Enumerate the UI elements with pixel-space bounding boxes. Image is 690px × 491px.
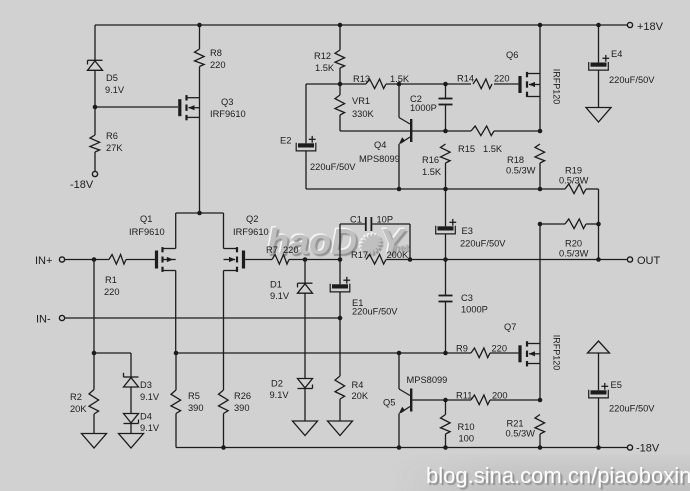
wire Q3 source to tail (199, 117, 201, 213)
wire bottom -18V rail (176, 447, 627, 449)
wire R10 wires (445, 400, 447, 448)
svg-text:R13: R13 (353, 74, 370, 84)
node out rail / D1 (303, 257, 308, 262)
svg-text:R16: R16 (422, 155, 439, 165)
node R19/R20 right (596, 222, 601, 227)
wire R1 to Q1 gate (126, 259, 155, 261)
svg-text:R18: R18 (507, 155, 524, 165)
ground below R4 (328, 421, 353, 436)
svg-text:R9: R9 (456, 344, 468, 354)
svg-text:100: 100 (459, 434, 475, 444)
svg-text:220: 220 (104, 287, 120, 297)
wire +18V top rail (95, 24, 628, 26)
wire IN- line (65, 317, 340, 319)
resistor VR1 (335, 95, 375, 119)
svg-text:D3: D3 (140, 380, 152, 390)
svg-text:9.1V: 9.1V (270, 291, 290, 301)
wire base rail (340, 130, 540, 132)
wire D5 to junction (94, 71, 96, 136)
resistor R15 (458, 126, 503, 154)
svg-text:-18V: -18V (636, 443, 660, 455)
wire IN+ to R1 (65, 259, 109, 261)
wire rail2 to VR1 (339, 84, 341, 95)
node bottom rail / R26 (221, 445, 226, 450)
svg-text:R8: R8 (210, 48, 222, 58)
resistor R2 (70, 390, 99, 415)
wire Q6 drain to top rail (539, 25, 541, 74)
svg-text:VR1: VR1 (352, 96, 370, 106)
wire R7 to D1 node (289, 259, 340, 261)
terminal OUT (627, 255, 660, 267)
svg-text:220: 220 (494, 74, 510, 84)
svg-text:OUT: OUT (637, 255, 661, 267)
svg-text:D4: D4 (140, 412, 152, 422)
wire R8 to Q3 drain (199, 67, 201, 98)
wire arrow to E5 (598, 353, 600, 390)
svg-text:R19: R19 (565, 166, 582, 176)
capacitor C2 (410, 94, 453, 113)
wire Q7 source down (539, 364, 541, 401)
svg-text:R12: R12 (314, 51, 331, 61)
capacitor C1 (340, 215, 410, 260)
capacitor E5 (589, 380, 656, 414)
resistor R10 (441, 415, 475, 444)
terminal IN+ (35, 255, 65, 267)
wire IN- node to R4 (339, 318, 341, 376)
capacitor E1 (330, 277, 398, 317)
node R20 left (538, 222, 543, 227)
svg-text:Q3: Q3 (221, 97, 233, 107)
svg-text:27K: 27K (106, 143, 123, 153)
svg-text:MPS8099: MPS8099 (407, 375, 448, 385)
wire E2 to rail4 (305, 151, 307, 189)
svg-text:20K: 20K (352, 391, 369, 401)
svg-text:200K: 200K (387, 250, 410, 260)
resistor R19 (540, 166, 599, 194)
wire out rail to D1 (304, 260, 306, 284)
node rail4 / Q4 emitter (397, 187, 402, 192)
wire C2 to base rail (445, 105, 447, 131)
svg-text:E3: E3 (462, 226, 473, 236)
transistor Q7 (504, 322, 562, 370)
node tail / Q3 source (197, 211, 202, 216)
svg-text:R7: R7 (266, 245, 278, 255)
node rail2 / C2 (443, 82, 448, 87)
svg-text:R5: R5 (188, 391, 200, 401)
svg-text:Q5: Q5 (383, 398, 395, 408)
wire E1 top (339, 260, 341, 285)
wire Q6 source down (539, 97, 541, 132)
resistor R1 (104, 255, 126, 298)
capacitor E4 (589, 49, 656, 85)
svg-text:220uF/50V: 220uF/50V (609, 404, 655, 414)
node rail4 / R18 / R19 (538, 187, 543, 192)
svg-text:9.1V: 9.1V (270, 390, 290, 400)
wire Q2 drain down (223, 271, 225, 391)
svg-text:IN-: IN- (36, 314, 51, 326)
node gate rail / Q1 drain (174, 351, 179, 356)
capacitor C3 (439, 293, 488, 315)
svg-text:E4: E4 (611, 49, 622, 59)
resistor R7 (266, 245, 299, 264)
node rail2 / Q4 collector (397, 82, 402, 87)
node rail2 / R12 / VR1 (338, 82, 343, 87)
terminal -18V left (70, 171, 98, 191)
wire top rail to R8 (199, 25, 201, 49)
svg-text:R10: R10 (458, 422, 475, 432)
ground below R2 (82, 434, 107, 449)
wire Q1 drain down (175, 271, 177, 354)
svg-text:E2: E2 (280, 136, 291, 146)
node IN+ / R2 branch (92, 257, 97, 262)
wire R20 node to out rail (598, 224, 600, 260)
wire Q2 gate to R7 (245, 259, 272, 261)
ground below E4 (586, 108, 611, 123)
svg-text:330K: 330K (352, 109, 375, 119)
wire tail (176, 213, 224, 249)
node bottom rail / R21 (538, 445, 543, 450)
wire Q3 gate (95, 106, 178, 108)
node rail4 / E3 (443, 187, 448, 192)
transistor Q1 (129, 214, 176, 272)
wire second rail (306, 83, 518, 85)
wire top rail to R12 (339, 25, 341, 50)
transistor Q5 (383, 353, 447, 448)
svg-text:220: 220 (492, 344, 508, 354)
svg-text:IRFP120: IRFP120 (552, 335, 562, 371)
diode D5 (88, 60, 125, 95)
svg-text:1000P: 1000P (410, 103, 437, 113)
wire D3 to D4 (130, 387, 132, 413)
wire R18 to rail4 (539, 163, 541, 189)
svg-text:R20: R20 (565, 239, 582, 249)
node bottom rail / R10 (443, 445, 448, 450)
wire Q5 base (412, 399, 471, 401)
svg-text:R2: R2 (70, 392, 82, 402)
svg-text:R11: R11 (456, 391, 472, 401)
terminal -18V bottom (627, 443, 659, 455)
transistor Q6 (506, 50, 562, 104)
wire top rail to E4 (598, 25, 600, 63)
wire R2 wires (93, 353, 95, 434)
svg-text:E5: E5 (611, 380, 622, 390)
node out rail / E1 / C1 (338, 257, 343, 262)
node base rail / C2 / R16 (443, 129, 448, 134)
diode D2 (270, 379, 313, 401)
svg-text:R4: R4 (352, 380, 364, 390)
capacitor E3 (436, 219, 507, 249)
wire output devices column (539, 224, 541, 344)
svg-text:R17: R17 (351, 250, 368, 260)
wire R11 right (490, 399, 540, 401)
capacitor E2 (280, 136, 356, 173)
svg-text:IRFP120: IRFP120 (552, 69, 562, 105)
wire D1 to D2 (304, 294, 306, 379)
svg-text:220: 220 (210, 60, 226, 70)
resistor R4 (335, 376, 369, 401)
wire R26 to bottom rail (223, 414, 225, 448)
diode D3 (124, 373, 160, 402)
svg-text:Q1: Q1 (140, 214, 152, 224)
wire D4 to ground (130, 424, 132, 434)
node Q5 base / R10 (443, 398, 448, 403)
wire E4 to ground (598, 70, 600, 107)
wire D3 top (130, 353, 132, 377)
wire R21 to bottom rail (539, 434, 541, 448)
wire rail2 to C2 (445, 84, 447, 98)
resistor R12 (314, 50, 345, 73)
wire C3 to gate rail (445, 302, 447, 353)
wire R12 to rail2 (339, 68, 341, 84)
node bottom rail / Q5 emitter (397, 445, 402, 450)
transistor Q3 (178, 95, 245, 120)
svg-text:D2: D2 (271, 379, 283, 389)
wire R19 right down (598, 189, 600, 224)
svg-text:9.1V: 9.1V (140, 423, 160, 433)
node gate rail / Q5 collector (397, 351, 402, 356)
resistor R5 (171, 390, 204, 414)
node top rail / R12 (338, 23, 343, 28)
node IN- / E1 / R4 (338, 316, 343, 321)
wire gate rail (176, 352, 518, 354)
svg-text:Q4: Q4 (374, 140, 386, 150)
wire out rail to C3 (445, 260, 447, 296)
wire R16 to rail4 (445, 163, 447, 189)
wire rail4 (306, 188, 540, 190)
wire D5 top (94, 25, 96, 60)
node R2 top (92, 351, 97, 356)
node gate rail / C3 / R9 (443, 351, 448, 356)
wire E1 to IN- node (339, 292, 341, 318)
svg-text:0.5/3W: 0.5/3W (559, 176, 589, 186)
svg-text:R15: R15 (458, 144, 475, 154)
wire IN+ node down (93, 260, 95, 354)
wire VR1 to base rail (339, 115, 341, 131)
wire R2 branch (94, 352, 131, 354)
svg-text:R21: R21 (507, 419, 524, 429)
ground below D4 (119, 434, 144, 449)
wire D2 to ground (304, 389, 306, 421)
resistor R13 (353, 74, 410, 89)
resistor R11 (456, 391, 508, 405)
node top rail / Q6 drain (538, 23, 543, 28)
svg-text:0.5/3W: 0.5/3W (506, 166, 536, 176)
resistor R9 (456, 344, 507, 358)
ground below D2 (293, 421, 318, 436)
svg-text:C3: C3 (461, 293, 473, 303)
node out rail / C1 right (408, 257, 413, 262)
resistor R14 (457, 74, 510, 89)
svg-text:D1: D1 (270, 280, 282, 290)
svg-text:220: 220 (283, 245, 299, 255)
resistor R26 (219, 390, 252, 414)
resistor R16 (422, 144, 450, 177)
svg-text:0.5/3W: 0.5/3W (506, 429, 536, 439)
svg-text:Q7: Q7 (504, 322, 516, 332)
node out rail / R19R20 (596, 257, 601, 262)
svg-text:1.5K: 1.5K (422, 167, 442, 177)
svg-text:390: 390 (234, 403, 250, 413)
node Q7 source / R11 / R21 (538, 398, 543, 403)
svg-text:IRF9610: IRF9610 (233, 227, 269, 237)
svg-text:MPS8099: MPS8099 (359, 154, 400, 164)
resistor R18 (506, 144, 545, 176)
svg-text:390: 390 (188, 403, 204, 413)
svg-text:220uF/50V: 220uF/50V (609, 75, 655, 85)
svg-text:1.5K: 1.5K (315, 63, 335, 73)
svg-text:1000P: 1000P (461, 305, 488, 315)
svg-text:+18V: +18V (637, 21, 664, 33)
node top rail / E4 (596, 23, 601, 28)
svg-text:20K: 20K (70, 404, 87, 414)
node out rail / E3-C3 (443, 257, 448, 262)
arrow symbol above E5 (588, 341, 610, 353)
resistor R6 (90, 131, 123, 153)
node bottom rail / E5 (596, 445, 601, 450)
svg-text:10P: 10P (377, 215, 394, 225)
svg-text:1.5K: 1.5K (483, 144, 503, 154)
resistor R20 (540, 219, 599, 259)
svg-text:9.1V: 9.1V (105, 85, 125, 95)
wire rail2 to E2 (305, 84, 307, 143)
svg-text:220uF/50V: 220uF/50V (460, 239, 506, 249)
wire R6 to -18V (94, 152, 96, 172)
terminal +18V (627, 21, 663, 33)
resistor R17 (351, 250, 409, 264)
svg-text:IN+: IN+ (35, 255, 52, 267)
node base rail / R18 (538, 129, 543, 134)
wire R4 to ground (339, 399, 341, 421)
svg-text:220uF/50V: 220uF/50V (310, 162, 356, 172)
wire E3 to out rail (445, 234, 447, 260)
svg-text:9.1V: 9.1V (140, 392, 160, 402)
wire rail4 to E3 (445, 189, 447, 226)
svg-text:Q6: Q6 (506, 50, 518, 60)
svg-text:220uF/50V: 220uF/50V (352, 307, 398, 317)
svg-text:0.5/3W: 0.5/3W (559, 249, 589, 259)
wire E5 to bottom rail (598, 398, 600, 448)
resistor R21 (506, 415, 545, 439)
svg-text:-18V: -18V (70, 179, 94, 191)
svg-text:R1: R1 (105, 275, 117, 285)
transistor Q2 (224, 214, 269, 272)
svg-text:D5: D5 (106, 73, 118, 83)
terminal IN- (36, 314, 65, 326)
svg-text:R26: R26 (234, 391, 251, 401)
svg-text:C1: C1 (350, 215, 362, 225)
svg-text:R6: R6 (106, 131, 118, 141)
wire out rail (386, 259, 627, 261)
diode D1 (270, 280, 313, 302)
node D5/R6/Q3 gate (93, 105, 98, 110)
svg-text:IRF9610: IRF9610 (129, 227, 165, 237)
svg-text:IRF9610: IRF9610 (210, 109, 246, 119)
diode D4 (124, 412, 160, 434)
wire R5 wires (175, 353, 177, 448)
transistor Q4 (359, 84, 412, 189)
svg-text:200: 200 (492, 391, 508, 401)
svg-text:R14: R14 (457, 74, 474, 84)
resistor R8 (195, 48, 226, 70)
svg-text:Q2: Q2 (246, 214, 258, 224)
node top rail / R8 (197, 23, 202, 28)
